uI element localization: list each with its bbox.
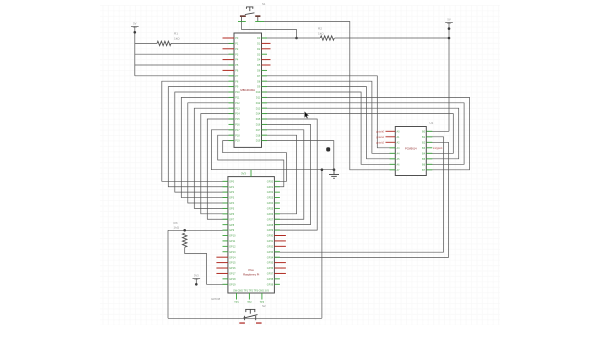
S2 red pad label left: [239, 322, 245, 324]
wire U1 right pin 2 down to Pico right pin 14: [274, 137, 443, 252]
resistor R3: [183, 233, 187, 247]
wire U2 right pin 16 to Pico right pin 10: [262, 119, 318, 230]
U2 left pin 9 stub: [229, 80, 235, 82]
wire U2 pin 19 under IC to Pico right pin 2: [218, 135, 284, 187]
U3 right pin 27 stub: [274, 213, 280, 215]
svg-text:int/gpio4: int/gpio4: [433, 147, 443, 150]
U1 left pin 2 red stub: [386, 136, 396, 138]
svg-text:D15: D15: [256, 118, 261, 121]
wire U2 right pin 13 around to U1 right pin 7: [262, 103, 465, 165]
U2 right pin 31 stub: [262, 91, 268, 93]
U1 left pin 6 stub: [390, 158, 396, 160]
svg-text:TP3: TP3: [260, 301, 265, 304]
svg-text:GP18: GP18: [229, 278, 236, 281]
svg-text:GP32: GP32: [267, 245, 274, 248]
svg-text:PCM5614: PCM5614: [405, 147, 417, 151]
U1 left pin 4 stub: [390, 147, 396, 149]
U2 left pin 13 stub: [229, 102, 235, 104]
U2 left pin 20 stub: [229, 140, 235, 142]
svg-text:gpio/a2: gpio/a2: [376, 141, 385, 144]
svg-text:GP35: GP35: [267, 262, 274, 265]
svg-text:GP36: GP36: [267, 267, 274, 270]
wire U2 left pin 14 to Pico GP5: [194, 108, 234, 208]
svg-text:GP13: GP13: [229, 251, 236, 254]
svg-text:GP7: GP7: [229, 218, 235, 221]
svg-text:SW GND TP1 TP2 TP3 GND 3V3: SW GND TP1 TP2 TP3 GND 3V3: [233, 290, 269, 293]
svg-text:3V3: 3V3: [241, 172, 246, 176]
U2 left pin 18 stub: [229, 129, 235, 131]
wire U2 right pin 10 to U1 left pin 6: [262, 87, 396, 159]
U3 right pin 32 red stub: [274, 240, 286, 242]
svg-text:GP19: GP19: [229, 283, 236, 286]
svg-text:GP11: GP11: [229, 240, 236, 243]
svg-text:GP14: GP14: [229, 256, 236, 259]
U2 left pin 3 red stub: [223, 48, 235, 50]
wire R3 bottom to Pico left pin 20: [185, 247, 228, 284]
svg-text:1kΩ: 1kΩ: [318, 31, 324, 35]
svg-text:GP2: GP2: [229, 191, 235, 194]
U2 right pin 33 stub: [262, 102, 268, 104]
U2 right pin 29 stub: [262, 80, 268, 82]
svg-text:GP30: GP30: [267, 235, 274, 238]
junction on 5V rail: [134, 31, 137, 34]
U2 left pin 2 stub: [229, 42, 235, 44]
svg-text:S2: S2: [262, 304, 266, 308]
wire U2 right pin 8 to U1 left pin 4: [262, 76, 396, 148]
wire U2 pin 18 net to ground rail: [211, 130, 334, 170]
wire U2 right pin 20 to ground: [262, 141, 334, 170]
wire U2 pin 20 under IC to Pico right pin 1: [223, 141, 287, 182]
U2 right pin 23 red stub: [262, 48, 271, 50]
wire U2 left pin 15 to Pico GP6: [201, 114, 234, 214]
wire U2 right pin 12 around to U1 right pin 8: [262, 97, 470, 169]
svg-text:GP1: GP1: [229, 186, 235, 189]
U3 right pin 23 stub: [274, 191, 280, 193]
svg-text:P19: P19: [235, 140, 240, 143]
U3 right pin 26 stub: [274, 207, 280, 209]
U2 left pin 6 stub: [229, 64, 235, 66]
U3 right pin 24 stub: [274, 197, 280, 199]
U2 left pin 12 stub: [229, 96, 235, 98]
svg-text:GP4: GP4: [229, 202, 235, 205]
svg-text:GP8: GP8: [229, 224, 235, 227]
svg-text:GP21: GP21: [267, 186, 274, 189]
U3 right pin 31 red stub: [274, 235, 286, 237]
wire U2 left pin 9 to Pico GP0: [162, 81, 234, 181]
svg-text:GP10: GP10: [229, 235, 236, 238]
svg-text:D10: D10: [256, 91, 261, 94]
S2 red pad label right: [256, 322, 262, 324]
svg-text:P18: P18: [235, 134, 240, 137]
junction ground rail and S2 drop: [321, 168, 324, 171]
svg-text:GP9: GP9: [229, 229, 235, 232]
junction on right 5V stem: [448, 27, 451, 30]
svg-text:P15: P15: [235, 118, 240, 121]
U1 right pin 11 stub: [426, 141, 432, 143]
U3 left pin 13 stub: [223, 245, 228, 247]
svg-text:GP23: GP23: [267, 197, 274, 200]
U3 top pin 3V3 stub: [250, 170, 252, 177]
U3 right pin 34 stub: [274, 251, 280, 253]
svg-text:GP34: GP34: [267, 256, 274, 259]
U2 left pin 19 stub: [229, 134, 235, 136]
U3 left pin 14 stub: [223, 251, 228, 253]
U3 right pin 22 stub: [274, 186, 280, 188]
U3 left pin 3 stub: [223, 191, 228, 193]
svg-text:GP3: GP3: [229, 197, 235, 200]
U2 left pin 15 stub: [229, 113, 235, 115]
U3 left pin 10 stub: [223, 229, 228, 231]
U2 right pin 37 stub: [262, 123, 268, 125]
wire U2 right pin 11 to U1 left pin 7: [262, 92, 396, 164]
svg-text:R3: R3: [174, 221, 178, 225]
svg-text:GP17: GP17: [229, 273, 236, 276]
svg-text:Pico: Pico: [248, 268, 254, 272]
svg-text:1kΩ: 1kΩ: [174, 226, 180, 230]
svg-text:GPIO8: GPIO8: [211, 297, 221, 301]
svg-text:5V: 5V: [447, 18, 450, 22]
svg-text:S1: S1: [262, 2, 266, 6]
U2 left pin 16 stub: [229, 118, 235, 120]
S1 green pin stub right: [255, 21, 264, 23]
U2 right pin 40 stub: [262, 140, 268, 142]
junction at ground symbol: [333, 168, 336, 171]
U3 left pin 4 stub: [223, 197, 228, 199]
svg-text:GP33: GP33: [267, 251, 274, 254]
U2 left pin 7 red stub: [223, 69, 235, 71]
U3 left pin 15 red stub: [216, 256, 228, 258]
svg-text:R2: R2: [318, 27, 322, 31]
U2 right pin 24 stub: [262, 53, 268, 55]
svg-text:GP12: GP12: [229, 245, 236, 248]
svg-text:P14: P14: [235, 113, 240, 116]
wire 5V right rail down to U1 pin 1: [448, 23, 450, 132]
wire R1 to U2 pin: [171, 42, 234, 44]
svg-text:P11: P11: [235, 97, 240, 100]
U2 right pin 32 stub: [262, 96, 268, 98]
U2 left pin 14 stub: [229, 107, 235, 109]
U3 right pin 33 red stub: [274, 245, 286, 247]
svg-text:GP0: GP0: [229, 180, 235, 183]
ground symbol: [329, 170, 339, 179]
U3 left pin 6 stub: [223, 207, 228, 209]
U2 right pin 26 red stub: [262, 64, 271, 66]
U1 right pin 15 stub: [426, 163, 432, 165]
svg-text:P17: P17: [235, 129, 240, 132]
U3 left pin 7 stub: [223, 213, 228, 215]
svg-text:GP28: GP28: [267, 224, 274, 227]
svg-text:P12: P12: [235, 102, 240, 105]
svg-text:GP22: GP22: [267, 191, 274, 194]
U2 right pin 30 stub: [262, 86, 268, 88]
power symbol 3V3: [193, 274, 201, 280]
svg-text:GP5: GP5: [229, 208, 235, 211]
svg-text:D13: D13: [256, 107, 261, 110]
U2 left pin 5 red stub: [223, 59, 235, 61]
power symbol 5V top-right: [445, 18, 453, 24]
U2 right pin 34 stub: [262, 107, 268, 109]
mouse cursor: [304, 111, 309, 118]
svg-text:D19: D19: [256, 140, 261, 143]
U2 right pin 35 stub: [262, 113, 268, 115]
resistor R2: [320, 36, 334, 40]
IC U1 body: [395, 127, 426, 176]
U1 right pin 10 stub: [426, 136, 432, 138]
svg-text:GP25: GP25: [267, 208, 274, 211]
U3 right pin 35 stub: [274, 256, 280, 258]
U3 right pin 21 stub: [274, 180, 280, 182]
U3 right pin 28 stub: [274, 218, 280, 220]
wire U2 right pin 9 to U1 left pin 5: [262, 81, 396, 153]
U2 right pin 28 stub: [262, 75, 268, 77]
svg-text:D17: D17: [256, 129, 261, 132]
U1 right pin 13 stub: [426, 152, 432, 154]
U2 left pin 17 stub: [229, 123, 235, 125]
svg-text:GP20: GP20: [267, 180, 274, 183]
S1 green pin stub left: [238, 21, 246, 23]
U3 right pin 38 red stub: [274, 272, 286, 274]
wire 5V rail left: [134, 27, 136, 76]
S1 pad right: [255, 15, 260, 17]
svg-text:GP29: GP29: [267, 229, 274, 232]
U3 right pin 30 stub: [274, 229, 280, 231]
U3 left pin 18 red stub: [216, 272, 228, 274]
wire left rail down to S2: [167, 230, 169, 318]
U3 right pin 40 stub: [274, 283, 280, 285]
wire bottom net through S2: [168, 317, 322, 319]
microcontroller U3 Raspberry Pi Pico body: [228, 177, 275, 293]
wire S1 left leg to node A: [242, 22, 297, 39]
U2 right pin 22 red stub: [262, 42, 271, 44]
U2 right pin 21 stub: [262, 37, 268, 39]
wire U1 right pin 1 to 5V rail: [426, 130, 449, 132]
wire 5V rail to U2 pin row 3: [135, 64, 234, 66]
svg-text:P16: P16: [235, 124, 240, 127]
U1 left pin 7 stub: [390, 163, 396, 165]
U2 left pin 10 stub: [229, 86, 235, 88]
svg-text:3V3: 3V3: [194, 274, 199, 278]
U3 left pin 1 stub: [223, 180, 228, 182]
wire 3V3 stem: [195, 279, 197, 285]
wire S1 to U1 pin 8 left: [264, 22, 395, 170]
U2 right pin 38 stub: [262, 129, 268, 131]
U2 left pin 8 stub: [229, 75, 235, 77]
button S1: [242, 7, 258, 22]
U3 left pin 11 stub: [223, 235, 228, 237]
wire U2 left pin 10 to Pico GP1: [168, 87, 234, 187]
U2 left pin 1 red stub: [223, 37, 235, 39]
junction blob: [326, 147, 330, 151]
U3 right pin 37 red stub: [274, 267, 286, 269]
wire U2 right pin 15 around to U1 right pin 5: [262, 114, 454, 154]
U2 right pin 25 red stub: [262, 59, 271, 61]
svg-text:5V: 5V: [133, 22, 136, 26]
svg-text:D12: D12: [256, 102, 261, 105]
U1 left pin 3 red stub: [386, 141, 396, 143]
U3 left pin 19 stub: [223, 278, 228, 280]
power symbol 5V top-left: [131, 22, 139, 28]
svg-text:GP39: GP39: [267, 283, 274, 286]
svg-text:GP16: GP16: [229, 267, 236, 270]
wire U2 right pin 18 to Pico right pin 8: [262, 130, 304, 219]
svg-text:D14: D14: [256, 113, 261, 116]
svg-text:GP26: GP26: [267, 213, 274, 216]
wire 5V rail to U2 pin row 4: [135, 75, 234, 77]
wire 5V rail to U2 pin row 2: [135, 53, 234, 55]
wire U2 left pin 12 to Pico GP3: [181, 97, 234, 197]
svg-text:D11: D11: [256, 97, 261, 100]
U3 left pin 9 stub: [223, 224, 228, 226]
U3 bottom pin TP3 stub: [261, 293, 263, 300]
wire U2 left pin 16 to Pico GP7: [207, 119, 234, 219]
U3 right pin 36 red stub: [274, 262, 286, 264]
U3 left pin 5 stub: [223, 202, 228, 204]
U3 bottom pin TP2 stub: [248, 293, 250, 300]
junction 3V3 to net: [195, 283, 198, 286]
svg-text:Raspberry Pi: Raspberry Pi: [243, 273, 260, 277]
U3 right pin 39 stub: [274, 278, 280, 280]
U2 left pin 4 stub: [229, 53, 235, 55]
svg-text:gpio/a0: gpio/a0: [376, 130, 385, 133]
U1 right pin 12 stub: [426, 147, 432, 149]
wire 5V to R1: [135, 42, 157, 44]
wire U2 right pin 17 to Pico right pin 9: [262, 124, 311, 224]
svg-text:GP6: GP6: [229, 213, 235, 216]
wire U2 pin to R2: [262, 37, 321, 39]
svg-text:GP37: GP37: [267, 273, 274, 276]
svg-text:TP1: TP1: [234, 301, 239, 304]
svg-text:GP24: GP24: [267, 202, 274, 205]
svg-text:R1: R1: [174, 32, 178, 36]
svg-text:GP31: GP31: [267, 240, 274, 243]
svg-text:GP15: GP15: [229, 262, 236, 265]
wire rail to Pico left pin 10: [168, 229, 228, 231]
wire U1 right pin 3 down to Pico right pin 15: [274, 142, 448, 257]
S1 pad left: [240, 15, 246, 17]
U2 right pin 36 stub: [262, 118, 268, 120]
U2 left pin 11 stub: [229, 91, 235, 93]
junction R2 net and 5V rail: [448, 37, 451, 40]
U1 left pin 5 stub: [390, 152, 396, 154]
U3 left pin 20 stub: [223, 283, 228, 285]
op-amp U2 IC body: [234, 33, 262, 147]
U3 left pin 16 red stub: [216, 262, 228, 264]
svg-text:GP38: GP38: [267, 278, 274, 281]
svg-text:P10: P10: [235, 91, 240, 94]
svg-text:P13: P13: [235, 107, 240, 110]
U3 right pin 29 stub: [274, 224, 280, 226]
svg-text:1kΩ: 1kΩ: [174, 36, 180, 40]
wire U2 right pin 19 to Pico right pin 7: [262, 135, 297, 214]
U1 right pin 9 stub: [426, 130, 432, 132]
junction node A on R2 net: [295, 37, 298, 40]
svg-text:D16: D16: [256, 124, 261, 127]
U2 right pin 39 stub: [262, 134, 268, 136]
U3 left pin 12 stub: [223, 240, 228, 242]
wire R2 to 5V right: [335, 37, 449, 39]
wire U2 left pin 13 to Pico GP4: [188, 103, 234, 203]
svg-text:GP27: GP27: [267, 218, 274, 221]
wire U2 right pin 14 around to U1 right pin 6: [262, 108, 459, 159]
U1 right pin 16 stub: [426, 169, 432, 171]
U1 right pin 14 stub: [426, 158, 432, 160]
svg-text:D18: D18: [256, 134, 261, 137]
svg-text:gpio/a1: gpio/a1: [376, 136, 385, 139]
svg-text:TP2: TP2: [247, 301, 252, 304]
junction R3 top: [183, 229, 186, 232]
U2 right pin 27 stub: [262, 69, 268, 71]
resistor R1: [157, 41, 171, 45]
svg-text:MBC4K30A: MBC4K30A: [240, 88, 255, 92]
svg-text:U1: U1: [430, 121, 434, 125]
U3 bottom pin TP1 stub: [236, 293, 238, 300]
U1 left pin 8 stub: [390, 169, 396, 171]
U3 left pin 17 red stub: [216, 267, 228, 269]
U3 right pin 25 stub: [274, 202, 280, 204]
U3 left pin 2 stub: [223, 186, 228, 188]
wire U2 left pin 11 to Pico GP2: [175, 92, 234, 192]
U3 left pin 8 stub: [223, 218, 228, 220]
button S2: [243, 309, 257, 320]
U1 left pin 1 red stub: [386, 130, 396, 132]
wire ground rail down to S2 right: [321, 170, 323, 319]
